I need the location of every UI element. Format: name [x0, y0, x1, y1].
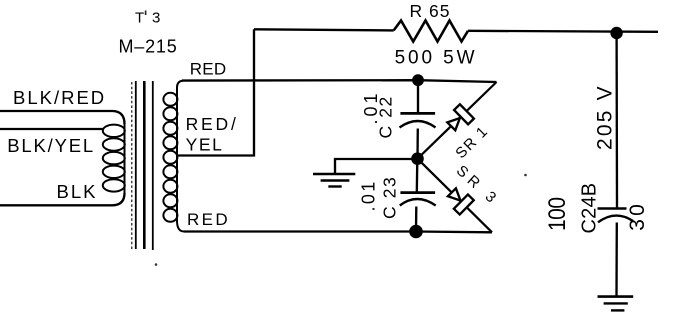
- resistor R65: [394, 21, 468, 42]
- svg-text:500 5W: 500 5W: [395, 48, 478, 69]
- wire top rail right of R65: [468, 31, 658, 32]
- svg-text:BLK/RED: BLK/RED: [13, 87, 106, 108]
- svg-text:RED/: RED/: [186, 114, 239, 134]
- node top junction: [412, 74, 424, 86]
- wire C22 to center junction: [416, 129, 419, 159]
- svg-text:C 22: C 22: [376, 95, 396, 138]
- capacitor C22: [400, 113, 436, 127]
- svg-text:RED: RED: [190, 60, 227, 79]
- wire 205V vertical: [615, 33, 618, 209]
- rectifier SR3 arrow: [448, 188, 461, 200]
- svg-text:.01: .01: [359, 179, 379, 211]
- wire BLK/RED lead: [0, 111, 125, 124]
- svg-text:C24B: C24B: [579, 183, 601, 234]
- node 205V junction: [610, 27, 622, 39]
- svg-text:RED: RED: [187, 210, 230, 229]
- rectifier SR1 diagonal wire: [418, 82, 497, 159]
- wire C23 to bottom junction: [415, 207, 418, 232]
- rectifier SR3 diagonal wire: [418, 159, 493, 233]
- svg-text:C 23: C 23: [380, 176, 400, 219]
- wire center junction to C23: [416, 159, 419, 193]
- node center junction: [411, 152, 424, 165]
- scan speck: [145, 11, 147, 16]
- wire RED top rail: [182, 80, 497, 82]
- svg-text:M–215: M–215: [119, 37, 178, 57]
- svg-text:YEL: YEL: [186, 135, 224, 155]
- svg-text:100: 100: [544, 197, 571, 231]
- wire BLK/YEL lead: [0, 128, 104, 130]
- rectifier SR3 plate: [454, 195, 474, 215]
- node bottom junction: [409, 225, 423, 239]
- wire top rail left of R65: [254, 29, 394, 30]
- wire top junction to C22: [417, 80, 419, 113]
- capacitor C24B: [598, 209, 634, 223]
- wire bottom rail: [184, 230, 492, 233]
- scan speck: [524, 174, 527, 177]
- wire center junction to ground: [335, 159, 418, 174]
- transformer T3 primary winding: [103, 123, 125, 194]
- svg-text:R 65: R 65: [410, 1, 451, 21]
- ground (center): [313, 174, 355, 187]
- svg-text:SR 1: SR 1: [452, 123, 492, 163]
- transformer T3 core: [132, 81, 153, 250]
- rectifier SR1 plate: [454, 104, 474, 124]
- svg-text:BLK: BLK: [57, 181, 98, 202]
- wire center tap to top rail: [178, 29, 255, 155]
- rectifier SR1 arrow: [447, 118, 460, 130]
- svg-text:30: 30: [626, 201, 649, 231]
- svg-text:T 3: T 3: [135, 10, 162, 27]
- scan speck: [155, 263, 158, 266]
- svg-text:205 V: 205 V: [594, 84, 617, 150]
- ground (right): [598, 297, 634, 311]
- capacitor C23: [400, 193, 436, 206]
- transformer T3 secondary winding: [163, 81, 184, 232]
- wire BLK lead: [0, 193, 125, 205]
- svg-text:BLK/YEL: BLK/YEL: [7, 135, 95, 156]
- wire C24B to ground: [615, 223, 618, 297]
